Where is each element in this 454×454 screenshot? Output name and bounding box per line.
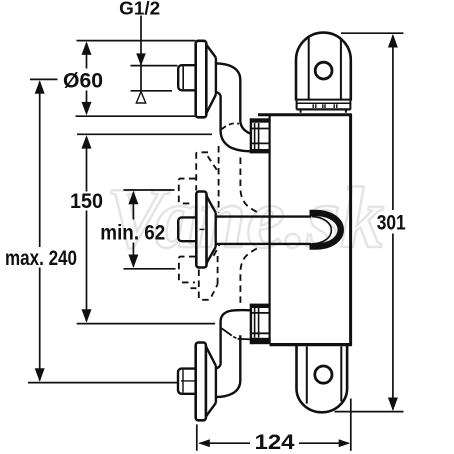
watermark Vane.sk xyxy=(106,169,384,266)
dashed phantom: upper pipe left edge xyxy=(218,146,220,213)
dashed phantom: lower alternate flange disc xyxy=(199,270,210,300)
bottom wall flange disc xyxy=(196,343,206,421)
top union nut xyxy=(251,118,270,153)
dimension max. 240 xyxy=(28,79,178,382)
top wall flange disc xyxy=(196,41,207,118)
bottom flange cone xyxy=(206,346,216,416)
middle hex stub xyxy=(178,217,196,241)
top S-pipe xyxy=(216,63,251,151)
dashed phantom: lower hex xyxy=(179,257,196,283)
dashed phantom: upper alternate flange disc xyxy=(196,152,208,190)
dashed phantom: lower pipe right edge from nut xyxy=(240,248,258,303)
middle wall flange disc xyxy=(196,192,206,268)
dashed phantom: lower disc corner fragment xyxy=(191,287,197,289)
dashed phantom: lower cone slant xyxy=(211,284,217,296)
svg-text:150: 150 xyxy=(70,190,103,213)
middle pipe end inner outline xyxy=(312,217,332,244)
body (valve slab) xyxy=(258,114,352,346)
dashed phantom: upper cone slant xyxy=(208,156,217,170)
dashed phantom: lower pipe left edge xyxy=(214,245,220,284)
dimension 124 xyxy=(197,399,351,451)
top hex facet line xyxy=(182,66,184,89)
middle straight pipe xyxy=(216,217,311,244)
top knob xyxy=(296,33,351,101)
dashed phantom: upper pipe right edge from nut xyxy=(240,158,258,213)
middle disc pipe mark xyxy=(200,228,205,230)
svg-text:min. 62: min. 62 xyxy=(100,221,165,244)
svg-text:G1/2: G1/2 xyxy=(119,0,160,18)
bottom elbow inner edge xyxy=(222,328,251,339)
dimension Ø60 xyxy=(76,41,196,117)
bottom knob xyxy=(297,346,348,412)
top flange cone xyxy=(206,45,216,114)
dashed phantom: upper pipe end arc xyxy=(222,123,239,129)
middle pipe end cap (thick) xyxy=(310,213,341,247)
dashed phantom: upper hex xyxy=(179,179,196,204)
dimension G1/2 arrows xyxy=(136,53,146,66)
top knob hole xyxy=(315,62,332,79)
svg-text:Ø60: Ø60 xyxy=(63,69,103,93)
bottom S-pipe xyxy=(216,310,251,397)
middle flange cone xyxy=(207,196,216,263)
dimension G1/2 leader line xyxy=(131,16,178,103)
dimension 150 xyxy=(77,134,215,323)
top hex stub G1/2 xyxy=(178,65,196,90)
svg-text:124: 124 xyxy=(255,431,295,454)
bottom hex stub xyxy=(178,369,196,394)
dimension 301 xyxy=(335,33,404,411)
top knob knurled ring xyxy=(296,101,350,113)
bottom union nut xyxy=(251,304,270,345)
bottom knob hole xyxy=(315,366,332,383)
svg-text:301: 301 xyxy=(377,211,406,234)
dimension min. 62 xyxy=(124,190,176,269)
bottom hex facet lines xyxy=(181,370,195,393)
svg-text:max. 240: max. 240 xyxy=(5,247,77,270)
